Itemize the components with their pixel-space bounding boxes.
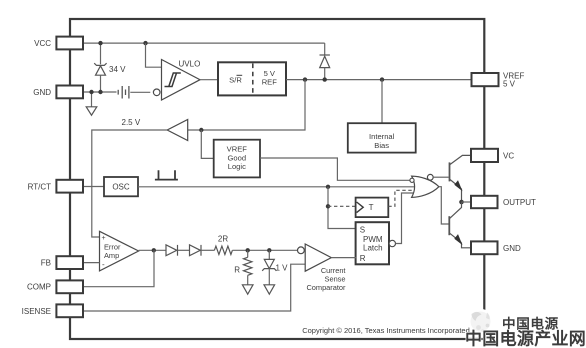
pin box GND left — [56, 86, 83, 99]
svg-text:2R: 2R — [218, 234, 228, 243]
ground arrow below 1V zener — [264, 285, 275, 294]
pin box RT/CT — [56, 180, 83, 193]
svg-text:Internal: Internal — [369, 132, 395, 141]
NOR gate — [412, 176, 439, 197]
pin box VCC — [56, 37, 83, 50]
node dot UVLO tap — [143, 41, 147, 45]
wire to resistor R — [247, 250, 249, 257]
node dot diode D2 — [323, 77, 327, 81]
wire OSC to latch S — [328, 187, 356, 229]
comparator input bubble — [298, 247, 305, 254]
diode D3 — [166, 245, 178, 256]
op-amp current sense comparator — [305, 244, 331, 271]
node dot internal bias tap — [380, 77, 384, 81]
wire VCC rail — [83, 42, 325, 44]
svg-text:ISENSE: ISENSE — [22, 307, 51, 316]
svg-text:UVLO: UVLO — [179, 60, 201, 69]
hysteresis glyph — [165, 73, 181, 87]
block Internal Bias — [348, 123, 416, 152]
pin box VREF — [472, 73, 499, 86]
wire VREF good logic input — [201, 130, 213, 158]
wire internal bias feed — [381, 80, 383, 124]
ground arrow below R — [242, 285, 253, 294]
wire VREF good logic output to NOR gate — [260, 158, 410, 180]
node dot zener bottom — [98, 90, 102, 94]
svg-text:FB: FB — [41, 259, 51, 268]
wire GND line — [83, 91, 117, 93]
wire to 2R — [201, 249, 214, 251]
wire ISENSE — [83, 264, 305, 311]
block PWM Latch — [356, 222, 389, 264]
wire diode D2 bottom — [324, 68, 326, 80]
block U2 S/R 5V REF — [218, 62, 286, 95]
svg-text:2.5 V: 2.5 V — [122, 118, 141, 127]
svg-text:VREF: VREF — [227, 145, 248, 154]
node dot COMP tap — [152, 248, 156, 252]
wire to 1V zener — [268, 250, 270, 259]
wire 2.5V feed from VREF rail — [188, 80, 305, 130]
Q1 emitter arrow — [454, 180, 462, 191]
block T flip-flop — [356, 198, 389, 218]
svg-text:GND: GND — [33, 88, 51, 97]
pin box OUTPUT — [471, 196, 498, 208]
node dot T tap — [326, 204, 330, 208]
zener D1 34V — [94, 63, 106, 75]
svg-text:Comparator: Comparator — [306, 283, 346, 292]
wire 2.5V to error amp — [92, 130, 167, 237]
block VREF Good Logic — [214, 140, 260, 178]
svg-text:COMP: COMP — [27, 283, 51, 292]
pin box FB — [56, 256, 83, 269]
NOR top output bubble — [427, 174, 433, 180]
op-amp UVLO comparator — [153, 89, 160, 96]
node dot GND-arrow — [89, 90, 93, 94]
transistor Q1 (upper NPN) — [450, 155, 472, 202]
wire zener bottom — [100, 75, 102, 92]
wire 2R to comparator — [232, 249, 297, 251]
wire OSC output — [138, 186, 416, 188]
resistor 2R — [214, 246, 232, 254]
op-amp error amplifier — [100, 231, 139, 271]
svg-text:OUTPUT: OUTPUT — [503, 198, 536, 207]
node dot R tap — [246, 248, 250, 252]
zener D5 1V — [262, 259, 276, 270]
pin box GND right — [471, 241, 498, 254]
NOR input bubble (VREF good) — [410, 178, 414, 182]
battery B1 (UVLO threshold) — [118, 86, 129, 99]
svg-text:REF: REF — [262, 78, 278, 87]
wire COMP pin — [83, 250, 154, 286]
svg-text:-: - — [102, 260, 105, 269]
clock waveform glyph — [155, 170, 178, 179]
node dot output — [459, 200, 464, 205]
wire RT/CT to OSC — [84, 186, 104, 188]
Q2 emitter arrow — [454, 234, 462, 245]
svg-text:Amp: Amp — [104, 251, 119, 260]
svg-text:Good: Good — [228, 153, 247, 162]
watermark logo icon — [468, 309, 494, 335]
diode D2 (VREF to VCC) — [320, 55, 330, 68]
wire UVLO output — [200, 79, 218, 81]
ground arrow near GND pin — [91, 92, 93, 107]
pin box VC — [471, 149, 498, 162]
svg-text:1 V: 1 V — [276, 263, 289, 272]
block OSC — [104, 177, 138, 196]
svg-text:PWM: PWM — [363, 235, 383, 244]
pin box COMP — [56, 280, 83, 293]
transistor Q2 (lower NPN) — [449, 202, 471, 248]
node dot zener top — [98, 41, 102, 45]
wire between diodes — [178, 249, 190, 251]
svg-text:34 V: 34 V — [109, 65, 126, 74]
svg-text:S: S — [360, 225, 365, 234]
wire UVLO upper input — [146, 43, 162, 67]
svg-text:GND: GND — [503, 244, 521, 253]
wire NOR bubble to Q1 base — [433, 176, 449, 178]
wire battery to UVLO bubble — [130, 91, 150, 93]
wire latch output to NOR gate — [396, 193, 414, 244]
node dot 1V zener tap — [267, 248, 271, 252]
wire zener to ground — [268, 269, 270, 285]
wire FB input — [83, 262, 99, 264]
wire comparator output to latch R — [331, 257, 356, 259]
diode D4 — [190, 245, 202, 256]
svg-text:中国电源产业网: 中国电源产业网 — [465, 329, 586, 348]
wire NOR apex to Q2 base — [439, 187, 449, 224]
wire error amp output — [139, 249, 166, 251]
node dot VREF good tap — [199, 128, 203, 132]
wire diode D2 top — [324, 43, 326, 55]
svg-text:Latch: Latch — [363, 244, 383, 253]
buffer 2.5V (points left) — [167, 120, 188, 141]
svg-text:Logic: Logic — [228, 162, 246, 171]
wire zener top — [100, 43, 102, 64]
svg-text:R: R — [360, 254, 366, 263]
IC boundary border — [70, 19, 484, 339]
wire R to ground — [247, 275, 249, 285]
svg-text:T: T — [369, 203, 374, 212]
wire dashed to T input — [328, 205, 356, 207]
resistor R (vertical) — [244, 257, 252, 275]
latch output bubble — [389, 240, 395, 246]
svg-text:5 V: 5 V — [503, 80, 516, 89]
svg-text:Bias: Bias — [374, 141, 389, 150]
wire dashed T output to NOR gate — [388, 190, 414, 206]
svg-text:+: + — [102, 235, 106, 242]
svg-text:R: R — [234, 266, 240, 275]
svg-text:OSC: OSC — [112, 183, 130, 192]
wire to OUTPUT pin — [462, 201, 472, 203]
svg-text:S/R: S/R — [229, 75, 242, 84]
svg-text:Copyright © 2016, Texas Instru: Copyright © 2016, Texas Instruments Inco… — [302, 326, 470, 335]
node dot 2.5V tap — [303, 77, 307, 81]
node dot OSC branch — [326, 185, 330, 189]
wire VREF rail — [286, 79, 472, 81]
svg-text:RT/CT: RT/CT — [28, 182, 52, 191]
svg-text:VCC: VCC — [34, 39, 51, 48]
pin box ISENSE — [56, 304, 83, 317]
svg-text:VC: VC — [503, 151, 514, 160]
